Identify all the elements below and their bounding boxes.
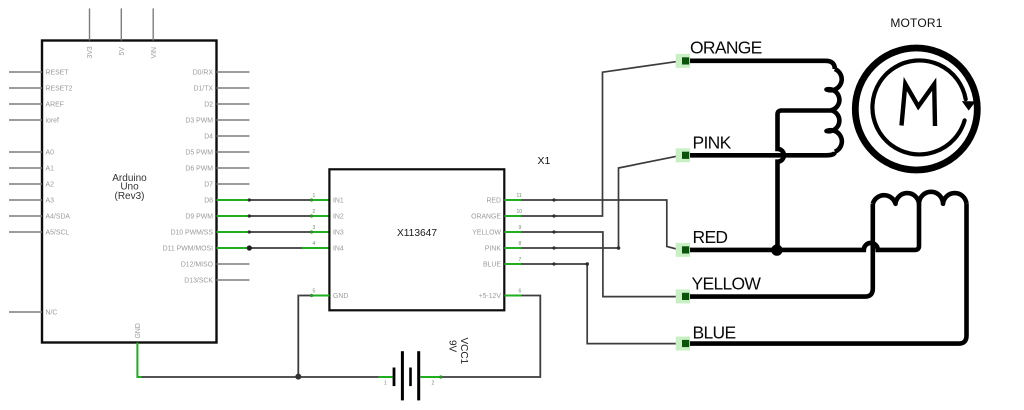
svg-text:RED: RED bbox=[693, 227, 728, 247]
wire YELLOW pin9 to YELLOW pad bbox=[504, 230, 681, 296]
svg-text:X113647: X113647 bbox=[397, 228, 437, 239]
pad PINK bbox=[676, 148, 690, 162]
svg-text:6: 6 bbox=[519, 289, 522, 295]
wire arduino GND to battery minus bbox=[137, 343, 392, 378]
svg-text:PINK: PINK bbox=[693, 133, 732, 153]
svg-text:D1/TX: D1/TX bbox=[193, 86, 213, 93]
X1 left pin labels bbox=[333, 198, 348, 301]
wire PINK pin8 to PINK pad bbox=[504, 155, 681, 250]
svg-text:D5 PWM: D5 PWM bbox=[185, 150, 213, 157]
wire X1 GND down bbox=[298, 294, 329, 377]
motor M letter bbox=[902, 84, 936, 126]
svg-text:D6 PWM: D6 PWM bbox=[185, 166, 213, 173]
svg-text:VCC1: VCC1 bbox=[458, 338, 469, 365]
svg-text:2: 2 bbox=[313, 209, 316, 215]
winding A coil loops bbox=[827, 69, 842, 152]
wire YELLOW thick to winding B bbox=[683, 204, 873, 297]
svg-text:A4/SDA: A4/SDA bbox=[46, 214, 71, 221]
svg-text:GND: GND bbox=[333, 293, 348, 300]
pad RED bbox=[676, 243, 690, 257]
left pin labels bbox=[46, 70, 73, 317]
svg-text:IN3: IN3 bbox=[333, 230, 344, 237]
Arduino Uno module U1 bbox=[9, 8, 250, 342]
svg-text:7: 7 bbox=[519, 257, 522, 263]
motor arrow head bbox=[962, 101, 976, 111]
X1 left pin numbers bbox=[313, 193, 316, 295]
arduino body box bbox=[42, 41, 217, 343]
wire ORANGE thick with winding A top bbox=[683, 61, 835, 69]
X1 right pin labels bbox=[471, 198, 501, 301]
pad ORANGE bbox=[676, 54, 690, 68]
wire BLUE thick to winding B bbox=[683, 204, 967, 344]
svg-text:4: 4 bbox=[313, 241, 316, 247]
pin 5V top wire bbox=[120, 8, 122, 40]
svg-text:A2: A2 bbox=[46, 182, 55, 189]
stepper driver module X1 bbox=[313, 155, 551, 310]
right pin labels bbox=[163, 70, 214, 285]
pin VIN top wire bbox=[152, 8, 154, 40]
svg-text:D2: D2 bbox=[204, 102, 213, 109]
svg-text:3: 3 bbox=[313, 225, 316, 231]
junction RED node bbox=[771, 244, 782, 255]
svg-text:YELLOW: YELLOW bbox=[692, 274, 762, 294]
svg-text:5: 5 bbox=[313, 289, 316, 295]
arduino title text bbox=[112, 173, 147, 202]
svg-text:AREF: AREF bbox=[46, 102, 64, 109]
wire D8 to IN1 bbox=[217, 198, 330, 201]
wire RED pin11 to RED pad bbox=[504, 198, 681, 250]
winding B coil loops bbox=[873, 192, 967, 204]
svg-text:(Rev3): (Rev3) bbox=[114, 191, 144, 202]
left pin stubs bbox=[9, 72, 42, 312]
svg-text:2: 2 bbox=[432, 381, 435, 387]
svg-text:D3 PWM: D3 PWM bbox=[185, 118, 213, 125]
svg-text:1: 1 bbox=[384, 381, 387, 387]
svg-text:RED: RED bbox=[486, 198, 501, 205]
svg-text:5V: 5V bbox=[119, 47, 126, 56]
battery long plate 1 bbox=[401, 351, 404, 400]
svg-text:10: 10 bbox=[517, 209, 523, 215]
motor outer ring bbox=[855, 48, 977, 170]
svg-text:A5/SCL: A5/SCL bbox=[46, 230, 70, 237]
svg-text:1: 1 bbox=[313, 193, 316, 199]
junction ground node bbox=[295, 374, 301, 380]
svg-text:8: 8 bbox=[519, 241, 522, 247]
motor rotation arc bbox=[872, 60, 965, 154]
svg-text:A0: A0 bbox=[46, 150, 55, 157]
svg-text:MOTOR1: MOTOR1 bbox=[890, 16, 942, 30]
battery short plate 2 bbox=[409, 368, 412, 387]
battery short plate 1 bbox=[393, 368, 396, 387]
svg-text:BLUE: BLUE bbox=[483, 262, 501, 269]
X1 body box bbox=[329, 169, 504, 310]
svg-text:IN1: IN1 bbox=[333, 198, 344, 205]
wire D9 to IN2 bbox=[217, 214, 330, 217]
svg-text:ioref: ioref bbox=[46, 118, 59, 125]
svg-text:D4: D4 bbox=[204, 134, 213, 141]
X1 right pin numbers bbox=[517, 193, 523, 295]
wire RED thick to winding B tap bbox=[682, 204, 919, 250]
svg-text:PINK: PINK bbox=[485, 246, 501, 253]
pad YELLOW bbox=[676, 289, 690, 303]
wire battery plus to X1 +5-12V bbox=[420, 296, 540, 379]
svg-text:D12/MISO: D12/MISO bbox=[181, 262, 214, 269]
wire ORANGE pin10 to ORANGE pad bbox=[504, 61, 682, 218]
wire D11 to IN4 bbox=[217, 245, 330, 250]
svg-text:11: 11 bbox=[517, 193, 522, 199]
svg-text:D0/RX: D0/RX bbox=[193, 70, 214, 77]
svg-text:ORANGE: ORANGE bbox=[690, 38, 762, 58]
svg-text:+5-12V: +5-12V bbox=[479, 293, 502, 300]
svg-text:3V3: 3V3 bbox=[87, 46, 94, 58]
svg-text:GND: GND bbox=[135, 323, 142, 338]
svg-text:A1: A1 bbox=[46, 166, 55, 173]
svg-text:D13/SCK: D13/SCK bbox=[184, 278, 213, 285]
pad BLUE bbox=[676, 337, 690, 351]
battery long plate 2 bbox=[417, 351, 420, 400]
wire D10 to IN3 bbox=[217, 230, 330, 233]
svg-text:9V: 9V bbox=[447, 340, 458, 353]
svg-text:VIN: VIN bbox=[151, 47, 158, 59]
svg-text:D11 PWM/MOSI: D11 PWM/MOSI bbox=[163, 246, 213, 253]
svg-text:D8: D8 bbox=[204, 198, 213, 205]
svg-text:RESET: RESET bbox=[46, 70, 70, 77]
battery VCC1 bbox=[384, 338, 469, 401]
svg-text:D9 PWM: D9 PWM bbox=[185, 214, 213, 221]
wire PINK thick from winding A bbox=[683, 152, 835, 156]
svg-text:9: 9 bbox=[519, 225, 522, 231]
svg-text:D7: D7 bbox=[204, 182, 213, 189]
svg-text:X1: X1 bbox=[538, 155, 551, 167]
svg-text:RESET2: RESET2 bbox=[46, 86, 73, 93]
winding A center tap to RED bbox=[778, 111, 832, 251]
svg-text:YELLOW: YELLOW bbox=[472, 230, 501, 237]
pin 3V3 top wire bbox=[89, 8, 91, 40]
svg-text:IN2: IN2 bbox=[333, 214, 344, 221]
svg-text:D10 PWM/SS: D10 PWM/SS bbox=[170, 230, 213, 237]
svg-text:N/C: N/C bbox=[46, 310, 58, 317]
wire BLUE pin7 to BLUE pad bbox=[504, 262, 681, 343]
svg-text:A3: A3 bbox=[46, 198, 55, 205]
svg-text:IN4: IN4 bbox=[333, 246, 344, 253]
svg-text:ORANGE: ORANGE bbox=[471, 214, 501, 221]
motor M1 bbox=[855, 16, 977, 170]
right pin stubs bbox=[217, 72, 250, 280]
svg-text:BLUE: BLUE bbox=[693, 323, 736, 343]
